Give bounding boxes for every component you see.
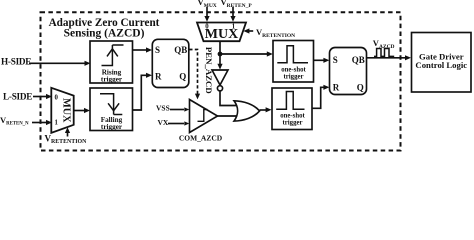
svg-text:R: R <box>155 72 162 82</box>
wire one-shot2 to latch L2 R <box>312 87 324 108</box>
wire VSS to comparator <box>170 109 184 111</box>
svg-text:VX: VX <box>158 118 169 127</box>
svg-text:S: S <box>155 45 160 55</box>
svg-text:H-SIDE: H-SIDE <box>1 57 31 67</box>
latch L2 (SR latch) <box>330 48 367 95</box>
svg-text:one-shot: one-shot <box>281 66 306 73</box>
junction node <box>218 52 223 57</box>
svg-text:MUX: MUX <box>61 98 72 123</box>
wire V_RETENTION select arrow into M2 <box>249 30 253 32</box>
comparator COM_AZCD <box>190 100 218 133</box>
hysteresis symbol <box>198 110 208 122</box>
wire junction to one-shot trigger 1 <box>220 53 267 55</box>
wire one-shot1 to latch L2 S <box>314 59 325 61</box>
rising edge symbol <box>102 45 124 66</box>
one-shot trigger 2 <box>272 88 312 130</box>
svg-text:QB: QB <box>174 45 187 55</box>
svg-text:QB: QB <box>352 55 365 65</box>
wire V_RETEN_P down into mux M2 <box>232 7 234 17</box>
OR gate G1 <box>234 101 260 121</box>
one-shot trigger 1 <box>273 41 314 83</box>
wire falling trigger to latch L1 R <box>133 75 147 110</box>
svg-text:MUX: MUX <box>205 27 238 42</box>
svg-text:VSS: VSS <box>156 103 170 112</box>
wire H-SIDE to rising trigger <box>29 62 85 64</box>
falling edge symbol <box>100 94 122 115</box>
mux M2 (top) <box>197 23 246 42</box>
wire inverter output to OR gate top input <box>220 91 237 106</box>
wire OR gate to one-shot trigger 2 <box>260 109 266 111</box>
svg-text:Sensing (AZCD): Sensing (AZCD) <box>64 28 145 40</box>
AZCD block dashed border <box>41 12 401 150</box>
svg-text:L-SIDE: L-SIDE <box>3 91 32 101</box>
wire L-SIDE to mux M1 <box>33 96 47 98</box>
falling trigger U2 <box>90 88 133 131</box>
wire rising trigger to latch L1 S <box>133 49 147 51</box>
inverter U3 <box>212 70 228 85</box>
svg-text:trigger: trigger <box>101 76 123 84</box>
wire M1 output to falling trigger <box>74 110 85 112</box>
svg-text:trigger: trigger <box>283 120 303 127</box>
gate driver control logic box <box>412 33 472 93</box>
mux M1 (left) <box>51 88 73 133</box>
svg-text:S: S <box>333 55 338 65</box>
svg-text:COM_AZCD: COM_AZCD <box>179 134 223 143</box>
title Adaptive Zero Current Sensing (AZCD) <box>49 17 160 40</box>
svg-text:0: 0 <box>54 95 58 102</box>
svg-text:Q: Q <box>357 82 364 92</box>
pulse symbol <box>277 46 308 63</box>
wire comparator output to OR gate bottom input <box>218 115 238 117</box>
svg-text:R: R <box>333 82 340 92</box>
wire V_RETENTION select arrow into M1 <box>67 132 69 137</box>
wire L2 QB to gate driver <box>367 57 406 59</box>
net PEN_AZCD dashed from L1 QB to comparator enable <box>189 50 197 95</box>
svg-text:one-shot: one-shot <box>280 113 305 120</box>
pulse symbol <box>276 92 304 110</box>
rising trigger U1 <box>90 41 133 83</box>
wire V_MUX down into mux M2 <box>206 7 208 17</box>
svg-text:Control Logic: Control Logic <box>415 60 467 70</box>
svg-text:trigger: trigger <box>284 73 304 80</box>
latch L1 (SR latch) <box>152 39 189 87</box>
wire VX to comparator <box>168 123 184 125</box>
wire M2 output down to inverter <box>219 41 221 64</box>
svg-text:Q: Q <box>179 72 186 82</box>
pulse waveform V_AZCD <box>374 49 394 57</box>
svg-text:trigger: trigger <box>101 123 123 131</box>
wire V_RETEN_N to mux M1 <box>32 122 47 124</box>
svg-text:1: 1 <box>54 120 58 127</box>
